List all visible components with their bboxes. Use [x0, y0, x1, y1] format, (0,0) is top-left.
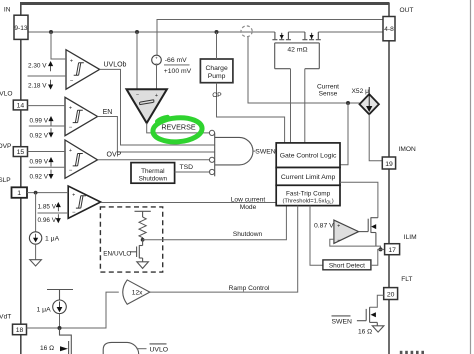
svg-text:Ramp Control: Ramp Control	[229, 285, 270, 292]
current source I2 1uA (dVdT)	[53, 300, 67, 314]
pin UVLO box 14	[13, 100, 27, 110]
wire: fast-trip to short detect	[310, 206, 323, 266]
comparator low-current-mode (pin 1)	[68, 186, 100, 218]
svg-text:dVdT: dVdT	[0, 314, 11, 321]
wire: pin 20 to fault FET drain	[370, 295, 384, 307]
wire: main IN rail	[28, 31, 383, 33]
wire: pin 15 to OVP plus input	[28, 151, 66, 153]
svg-text:+: +	[70, 58, 73, 64]
svg-text:12x: 12x	[132, 290, 143, 297]
voltage source V1 offset	[152, 55, 162, 65]
wire: pin 18 node to 12x input	[27, 292, 119, 328]
svg-text:(Threshold=1.5xIOL): (Threshold=1.5xIOL)	[282, 198, 333, 204]
wire: current source to ground	[35, 244, 37, 260]
svg-text:1.85 V: 1.85 V	[38, 203, 57, 210]
internal rail T-bar in dashed box	[135, 211, 151, 217]
wire: charge pump input from IN rail	[216, 32, 218, 59]
pin dVdT box 18	[13, 324, 27, 335]
transistor M2 (FLT pulldown)	[357, 307, 377, 326]
pin FLT box 20	[384, 288, 398, 300]
svg-text:Shutdown: Shutdown	[139, 175, 168, 182]
wire: current source to dVdT node	[59, 314, 61, 328]
svg-text:−: −	[69, 125, 73, 131]
svg-text:2.18 V: 2.18 V	[28, 82, 47, 89]
wire: FET mid bridge	[288, 31, 305, 33]
svg-text:−: −	[70, 79, 74, 85]
svg-text:18: 18	[16, 327, 24, 334]
svg-text:CP: CP	[212, 92, 222, 99]
wire: EN output to AND gate	[98, 117, 215, 153]
svg-text:TSD: TSD	[180, 164, 194, 171]
junction dot dVdT node	[58, 326, 62, 330]
hysteresis glyph UVLOb	[74, 63, 84, 75]
wire: shutdown node to fast-trip comp	[143, 206, 287, 240]
junction dot on IN rail (REVERSE tap)	[135, 30, 139, 34]
comparator REVERSE (shaded, points down)	[127, 89, 167, 123]
internal rail T-bar (dVdT source)	[47, 290, 73, 301]
pin IMON box 19	[382, 157, 395, 169]
svg-text:2.30 V: 2.30 V	[28, 63, 47, 70]
ground symbol (open triangle)	[30, 260, 42, 266]
svg-text:X52 μ: X52 μ	[352, 88, 370, 95]
svg-text:Thermal: Thermal	[141, 168, 164, 175]
svg-text:EN/UVLO: EN/UVLO	[103, 250, 131, 257]
svg-text:OUT: OUT	[400, 7, 414, 14]
wire: reverse comparator minus input from IN rail	[136, 32, 138, 89]
junction dot on IN rail (charge pump tap)	[215, 30, 219, 34]
power FET Q1 (IN side)	[272, 32, 291, 40]
wire: UVLOb plus input from IN rail	[51, 32, 66, 59]
wire: AND output SWEN to gate control logic	[253, 150, 276, 152]
junction dot on IN rail (UVLOb tap)	[49, 30, 53, 34]
svg-text:UVLO: UVLO	[0, 90, 12, 97]
svg-text:0.87 V: 0.87 V	[314, 222, 334, 229]
comparator OVP	[65, 140, 98, 178]
wire/label line: OVP minus input	[29, 166, 65, 168]
wire: ramp control from 12x to fast-trip	[150, 206, 298, 293]
AND gate U4 (output discharge, clipped at bottom)	[103, 342, 139, 354]
wire/label line: EN minus input	[29, 125, 65, 127]
svg-text:Shutdown: Shutdown	[233, 231, 263, 238]
block: Short Detect	[323, 260, 371, 270]
svg-text:16 Ω: 16 Ω	[40, 345, 54, 352]
wire: source to reverse comparator plus input	[156, 65, 158, 90]
svg-text:−: −	[337, 238, 341, 244]
block: Gate Control Logic	[276, 143, 340, 168]
transistor M4 (dVdT discharge)	[60, 328, 72, 354]
wire: feedback to minus input of 0.87V amp	[330, 239, 381, 249]
svg-text:0.96 V: 0.96 V	[38, 217, 57, 224]
junction node: current sense to mirror	[346, 101, 350, 105]
comparator UVLOb	[66, 50, 100, 89]
svg-text:Current Limit Amp: Current Limit Amp	[281, 174, 336, 181]
GND pin dots (clipped text at bottom)	[400, 351, 424, 354]
amplifier 12x	[123, 280, 150, 304]
svg-text:17: 17	[388, 247, 396, 254]
svg-text:-66 mV: -66 mV	[165, 57, 187, 64]
svg-text:+100 mV: +100 mV	[164, 68, 192, 75]
svg-text:SWEN: SWEN	[332, 319, 352, 326]
svg-text:20: 20	[387, 291, 395, 298]
svg-text:+: +	[69, 105, 72, 111]
wire: pin 1 to comparator plus input	[27, 192, 68, 194]
wire: OVP output to AND input bubble	[98, 159, 211, 161]
junction dot shutdown node	[141, 238, 145, 242]
body diode arrow M2	[371, 312, 376, 317]
wire: UVLOb output to AND gate	[100, 69, 215, 145]
current mirror X52 diamond	[360, 94, 379, 114]
wire: sense leg left to gate control	[290, 69, 292, 143]
svg-text:Short Detect: Short Detect	[329, 262, 365, 269]
wire: sense leg right to gate control	[304, 69, 306, 143]
svg-text:+: +	[72, 193, 75, 199]
power FET Q2 (OUT side)	[302, 32, 320, 40]
svg-text:FLT: FLT	[401, 276, 412, 283]
body diode arrow Q2	[310, 35, 314, 39]
AND input bubble (TSD)	[209, 169, 214, 174]
svg-text:19: 19	[385, 161, 393, 168]
hysteresis glyph in REVERSE comparator	[140, 100, 154, 105]
annotation: green hand-drawn ellipse around REVERSE	[152, 116, 203, 143]
IC boundary top edge	[20, 2, 390, 5]
dashed box EN/UVLO pulldown	[100, 207, 162, 272]
wire: low current mode to fast-trip comp	[101, 202, 277, 204]
svg-text:ILIM: ILIM	[404, 234, 417, 241]
wire/label line: UVLOb minus input	[28, 75, 67, 77]
wire: mirror output to pin 19	[369, 114, 382, 160]
pin SLP box 1	[12, 187, 28, 198]
svg-text:Current: Current	[317, 83, 339, 90]
block: Fast-Trip Comp	[276, 185, 340, 205]
page edge line (right)	[470, 0, 472, 354]
wire: TSD to AND input bubble	[175, 171, 211, 173]
hysteresis glyph EN	[73, 110, 83, 122]
svg-text:+: +	[69, 148, 72, 154]
svg-text:1 μA: 1 μA	[37, 306, 52, 313]
svg-text:14: 14	[17, 103, 25, 110]
wire: current sense into gate control logic	[340, 103, 348, 165]
wire: U4 output	[136, 348, 146, 350]
svg-text:−: −	[69, 168, 73, 174]
junction dot on pin1 wire	[34, 191, 38, 195]
svg-text:Gate Control Logic: Gate Control Logic	[280, 153, 337, 160]
svg-text:4-8: 4-8	[384, 26, 394, 33]
wire: current limit amp to clamp FET drain	[340, 182, 378, 217]
svg-text:IN: IN	[4, 6, 11, 13]
wire: pin 14 to EN plus input	[28, 105, 66, 107]
pin ILIM box 17	[385, 244, 400, 255]
svg-text:OVP: OVP	[107, 151, 122, 158]
AND input bubble (OVP)	[209, 157, 214, 162]
wire: upper IN-OUT rail to OUT	[157, 20, 383, 56]
ground symbol (FLT FET)	[372, 326, 384, 332]
svg-text:9-13: 9-13	[14, 25, 28, 32]
AND input bubble (REVERSE)	[209, 130, 214, 135]
svg-text:0.99 V: 0.99 V	[30, 158, 49, 165]
wire: charge pump CP output to gate control	[217, 83, 285, 143]
block: Current Limit Amp	[276, 168, 340, 186]
IC boundary right edge	[388, 3, 390, 354]
label: SWEN	[256, 146, 276, 154]
svg-text:+: +	[337, 223, 340, 229]
IC boundary left edge	[20, 3, 22, 354]
pin IN box 9-13	[14, 15, 28, 39]
wire: ILIM node to pin 17	[381, 248, 385, 250]
ground symbol in dashed box	[137, 262, 149, 269]
wire: REVERSE output to AND input bubble	[147, 123, 211, 133]
charge pump U2	[200, 59, 233, 83]
comparator EN	[65, 97, 98, 135]
svg-text:OVP: OVP	[0, 143, 12, 150]
svg-text:IMON: IMON	[399, 146, 416, 153]
wire/label line: cmp4 minus input	[38, 212, 69, 214]
wire: short detect to ILIM node	[371, 249, 381, 265]
svg-text:1: 1	[17, 190, 21, 197]
svg-text:0.92 V: 0.92 V	[30, 174, 49, 181]
svg-text:SWEN: SWEN	[255, 148, 275, 155]
hysteresis glyph OVP	[73, 154, 83, 166]
svg-text:Charge: Charge	[205, 65, 228, 72]
junction dot ILIM node	[379, 247, 383, 251]
wire: current-sense tap riser from IN rail	[248, 37, 360, 103]
svg-text:SLP: SLP	[0, 177, 11, 184]
svg-text:15: 15	[17, 149, 25, 156]
svg-text:Pump: Pump	[208, 73, 226, 80]
body diode arrow M1	[371, 224, 376, 229]
transistor M3 EN/UVLO pulldown	[130, 240, 143, 262]
sense resistor 42 mOhm network	[275, 43, 320, 69]
svg-text:UVLOb: UVLOb	[104, 62, 127, 69]
svg-text:0.99 V: 0.99 V	[30, 117, 49, 124]
svg-text:0.92 V: 0.92 V	[30, 132, 49, 139]
annotation: dashed circle on IN rail tap	[241, 26, 252, 37]
pin OUT box 4-8	[383, 17, 395, 41]
svg-text:UVLO: UVLO	[150, 347, 169, 354]
current source I1 1uA (pin 1 pulldown)	[35, 193, 37, 232]
svg-text:1 μA: 1 μA	[45, 236, 60, 243]
svg-text:Sense: Sense	[319, 91, 338, 98]
op-amp current limit 0.87V (shaded)	[334, 220, 359, 243]
resistor R1 (zigzag) in dashed box	[139, 217, 146, 239]
svg-text:+: +	[155, 55, 158, 60]
svg-text:Low current: Low current	[231, 196, 266, 203]
body diode arrow M4	[60, 346, 68, 351]
svg-text:−: −	[136, 93, 139, 99]
thermal shutdown block	[131, 163, 175, 184]
pin OVP box 15	[13, 147, 27, 157]
AND gate U3 (SWEN)	[215, 133, 253, 176]
svg-text:EN: EN	[103, 109, 113, 116]
svg-text:−: −	[72, 210, 76, 216]
svg-text:16 Ω: 16 Ω	[358, 328, 372, 335]
svg-text:+: +	[155, 93, 158, 99]
transistor M1 (ILIM clamp)	[359, 217, 378, 246]
svg-text:Mode: Mode	[240, 204, 257, 211]
svg-text:REVERSE: REVERSE	[161, 123, 196, 132]
hysteresis glyph cmp4	[76, 196, 86, 208]
svg-text:42 mΩ: 42 mΩ	[287, 47, 307, 54]
svg-text:Fast-Trip Comp: Fast-Trip Comp	[286, 190, 331, 197]
body diode arrow Q1	[280, 35, 284, 39]
arrow inside mirror	[367, 87, 372, 111]
